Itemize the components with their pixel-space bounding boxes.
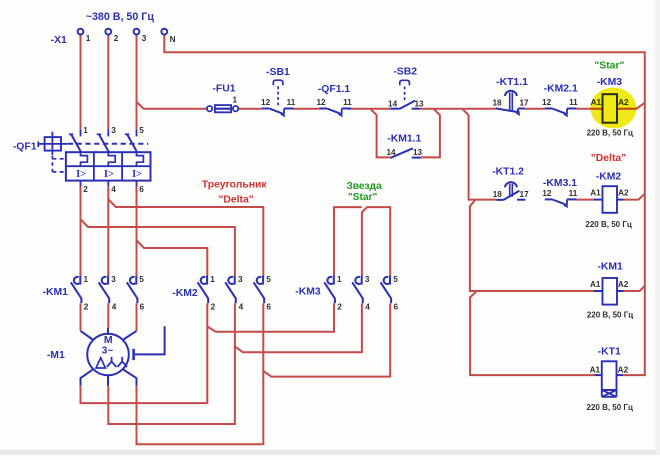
- svg-text:3: 3: [142, 34, 147, 43]
- wire FU1 to SB1: [238, 108, 262, 110]
- QF1.1 terminal numbers: [316, 98, 352, 107]
- terminal numbers X1: [86, 34, 176, 44]
- svg-text:220 В, 50 Гц: 220 В, 50 Гц: [587, 311, 633, 320]
- wire QF1.1 to SB2: [350, 108, 391, 110]
- svg-text:2: 2: [114, 34, 119, 43]
- KT1.2 terminal numbers: [493, 190, 529, 199]
- svg-text:11: 11: [569, 98, 578, 107]
- svg-text:A2: A2: [618, 189, 629, 198]
- label KT1 voltage: [587, 403, 633, 412]
- KM2 pole numbers top: [210, 275, 271, 284]
- wire QF1-2 down to KM1 pole 1: [80, 187, 82, 277]
- wire KM1 pole 4 to motor lead V1: [107, 303, 109, 328]
- svg-text:2: 2: [83, 185, 88, 194]
- label -KM2: [596, 172, 622, 183]
- svg-text:5: 5: [393, 275, 398, 284]
- KM2 coil terminals A1 A2: [590, 189, 629, 198]
- KM3 pole numbers top: [337, 275, 398, 284]
- svg-text:18: 18: [492, 99, 502, 108]
- label -KT1.2: [492, 167, 524, 178]
- KM2 pole numbers bottom: [211, 302, 272, 311]
- svg-text:13: 13: [414, 99, 424, 108]
- svg-text:"Star": "Star": [348, 192, 378, 203]
- pushbutton SB2 (NO start): [390, 80, 420, 109]
- contactor KM2 pole 3: [254, 276, 265, 304]
- svg-text:6: 6: [394, 302, 399, 311]
- svg-text:-KT1: -KT1: [598, 346, 621, 357]
- label -KM3.1: [543, 178, 577, 189]
- svg-text:18: 18: [493, 190, 503, 199]
- coil KM1 (line contactor): [594, 278, 624, 305]
- auxiliary contact QF1.1: [320, 109, 352, 118]
- FU1 terminal number 1: [233, 96, 238, 105]
- label -KM2.1: [544, 84, 578, 95]
- wire SB2 to KT1.1 along main control line: [420, 108, 496, 110]
- coil KM3: [603, 94, 618, 123]
- wire KM1.1 bypass loop right side: [421, 109, 440, 158]
- label -KM2 poles: [172, 288, 198, 299]
- yellow highlight circle over KM3 coil: [590, 88, 636, 129]
- wire left control rail middle section to rung 3: [470, 200, 594, 291]
- auxiliary contact KM3.1 (NC interlock): [545, 199, 577, 208]
- coil KM2 (delta contactor): [594, 186, 624, 213]
- label -KM3: [597, 77, 623, 88]
- wire delta branch QF1-6 to KM2 pole 1: [137, 240, 208, 276]
- svg-text:6: 6: [139, 185, 144, 194]
- KM2.1 terminal numbers: [542, 98, 578, 107]
- label -QF1.1: [318, 84, 351, 95]
- auxiliary contact KM1.1 (NO holding): [390, 148, 420, 158]
- svg-text:-SB2: -SB2: [393, 66, 417, 77]
- svg-text:13: 13: [413, 148, 423, 157]
- svg-text:-KM1.1: -KM1.1: [387, 133, 421, 144]
- wire left control rail upper section to rung 2: [462, 109, 496, 200]
- svg-text:5: 5: [139, 275, 144, 284]
- wire KM2 coil A2 to right rail: [624, 194, 645, 200]
- wire phase L3 vertical X1-3 to QF1 pole 5: [136, 35, 138, 129]
- svg-text:14: 14: [386, 148, 396, 157]
- label -KM1 poles: [42, 287, 68, 298]
- svg-text:"Star": "Star": [594, 60, 624, 71]
- wire delta branch QF1-4 to KM2 pole 5: [108, 199, 263, 276]
- label -SB2: [393, 66, 417, 77]
- pushbutton SB1 (NC stop): [262, 80, 294, 117]
- label Zvezda: [346, 181, 382, 192]
- KM1.1 terminal numbers: [386, 148, 422, 157]
- fuse FU1: [207, 105, 238, 112]
- label -M1: [47, 350, 65, 361]
- svg-text:I>: I>: [76, 169, 86, 180]
- svg-text:~380 В, 50 Гц: ~380 В, 50 Гц: [86, 11, 155, 23]
- timed contact KT1.2: [496, 182, 525, 200]
- wire QF1-4 down to KM1 pole 3: [107, 187, 109, 277]
- wire delta branch QF1-2 to KM2 pole 3: [81, 219, 235, 276]
- svg-text:4: 4: [365, 302, 370, 311]
- SB2 terminal numbers: [388, 99, 424, 108]
- circuit breaker QF1: [38, 129, 150, 186]
- svg-text:1: 1: [233, 96, 238, 105]
- contactor KM1 pole 2: [99, 276, 110, 304]
- contactor KM3 pole 1: [324, 276, 335, 304]
- svg-text:14: 14: [388, 99, 398, 108]
- svg-text:1: 1: [84, 275, 89, 284]
- KM1 coil terminals A1 A2: [590, 280, 629, 289]
- svg-text:17: 17: [520, 190, 530, 199]
- label Star quoted: [348, 192, 378, 203]
- svg-text:I>: I>: [132, 169, 142, 180]
- wire phase L1 vertical X1-1 to QF1 pole 1: [80, 35, 82, 129]
- svg-text:3~: 3~: [102, 345, 114, 356]
- svg-text:-FU1: -FU1: [212, 84, 235, 95]
- contactor KM1 pole 3: [127, 276, 138, 304]
- label -FU1: [212, 84, 235, 95]
- terminal X1-2: [105, 29, 111, 35]
- terminal X1-3: [134, 29, 140, 35]
- contactor KM2 pole 2: [225, 276, 236, 304]
- svg-text:-KM2: -KM2: [172, 288, 198, 299]
- contactor KM3 pole 3: [381, 276, 392, 304]
- svg-text:Треугольник: Треугольник: [202, 179, 268, 190]
- label -KT1: [598, 346, 621, 357]
- terminal X1-N: [161, 29, 167, 35]
- KT1 coil terminals A1 A2: [590, 365, 629, 374]
- svg-text:11: 11: [569, 189, 578, 198]
- svg-text:-KM1: -KM1: [42, 287, 68, 298]
- svg-text:A1: A1: [590, 365, 601, 374]
- KM1 pole numbers bottom: [84, 302, 145, 311]
- svg-text:-KM1: -KM1: [597, 261, 623, 272]
- wire KM3 coil A2 to right rail: [617, 103, 645, 109]
- svg-text:2: 2: [337, 302, 342, 311]
- svg-text:5: 5: [139, 126, 144, 135]
- svg-text:4: 4: [239, 302, 244, 311]
- KM1 pole numbers top: [84, 275, 145, 284]
- wire SB1 to QF1.1: [292, 108, 319, 110]
- label -KM1.1: [387, 133, 421, 144]
- wire N bus: terminal N to right-hand supply rail and KT1 rung: [164, 35, 645, 375]
- contactor KM2 pole 1: [198, 276, 209, 304]
- svg-text:1: 1: [86, 34, 91, 43]
- wire KM1 coil A2 to right rail: [624, 286, 645, 291]
- svg-text:11: 11: [287, 98, 296, 107]
- svg-text:12: 12: [316, 98, 326, 107]
- contactor KM1 pole 1: [71, 276, 82, 304]
- label -X1: [51, 35, 67, 46]
- label -KM1 coil: [597, 261, 623, 272]
- wire net W2: motor bottom right to KM2-6 and KM3-6: [137, 303, 391, 444]
- KM3 coil terminals A1 A2: [591, 98, 629, 107]
- label KM2 voltage: [585, 220, 631, 229]
- svg-text:-KT1.1: -KT1.1: [496, 77, 528, 88]
- svg-text:M: M: [104, 334, 113, 346]
- contactor KM3 pole 2: [352, 276, 363, 304]
- QF1 terminal numbers 1 3 5: [83, 126, 144, 135]
- svg-text:Звезда: Звезда: [346, 181, 382, 192]
- KM3 pole numbers bottom: [337, 302, 398, 311]
- label KM3 voltage: [587, 129, 633, 138]
- svg-text:I>: I>: [104, 169, 114, 180]
- svg-text:1: 1: [337, 275, 342, 284]
- wire net V2: motor bottom middle to KM2-4 and KM3-4: [108, 303, 362, 424]
- svg-text:A2: A2: [618, 280, 629, 289]
- svg-text:-QF1.1: -QF1.1: [318, 84, 351, 95]
- terminal X1-1: [78, 29, 84, 35]
- label Treugolnik: [202, 179, 268, 190]
- wire star point bus over KM3 poles: [334, 207, 390, 276]
- label -QF1: [13, 141, 37, 152]
- svg-text:6: 6: [266, 302, 271, 311]
- svg-text:A2: A2: [618, 365, 629, 374]
- svg-text:1: 1: [210, 275, 215, 284]
- wire KT1.1 to KM2.1: [525, 108, 545, 110]
- label -SB1: [266, 67, 290, 78]
- SB1 terminal numbers: [261, 98, 296, 107]
- svg-text:220 В, 50 Гц: 220 В, 50 Гц: [585, 220, 631, 229]
- svg-text:12: 12: [542, 189, 552, 198]
- wire KM3.1 to KM2 coil: [576, 199, 594, 201]
- svg-text:11: 11: [343, 98, 352, 107]
- wire left control rail lower section to rung 4: [470, 292, 594, 375]
- svg-text:"Delta": "Delta": [591, 153, 626, 164]
- svg-text:2: 2: [211, 302, 216, 311]
- QF1 terminal numbers 2 4 6: [83, 185, 144, 194]
- svg-text:17: 17: [519, 99, 529, 108]
- svg-text:220 В, 50 Гц: 220 В, 50 Гц: [587, 129, 633, 138]
- svg-text:3: 3: [238, 275, 243, 284]
- svg-text:3: 3: [111, 126, 116, 135]
- label Delta green-quoted red: [591, 153, 626, 164]
- svg-text:12: 12: [542, 98, 552, 107]
- svg-text:-KM3: -KM3: [597, 77, 623, 88]
- label Star green: [594, 60, 624, 71]
- svg-text:-M1: -M1: [47, 350, 65, 361]
- wire KM1 pole 2 to motor lead U1: [80, 303, 82, 330]
- label -KT1.1: [496, 77, 528, 88]
- svg-text:-X1: -X1: [51, 35, 67, 46]
- label supply voltage: [86, 11, 155, 23]
- border shading bottom: [0, 450, 660, 456]
- wire KM1 pole 6 to motor lead W1: [136, 303, 138, 330]
- svg-text:1: 1: [83, 126, 88, 135]
- wire control tap from phase L3 to fuse FU1: [137, 102, 208, 109]
- svg-text:-QF1: -QF1: [13, 141, 37, 152]
- svg-text:-KM3: -KM3: [295, 287, 321, 298]
- svg-text:6: 6: [140, 302, 145, 311]
- svg-text:"Delta": "Delta": [218, 194, 253, 205]
- svg-text:N: N: [170, 35, 176, 44]
- svg-text:-KM2: -KM2: [596, 172, 622, 183]
- svg-text:4: 4: [112, 302, 117, 311]
- svg-text:-KM3.1: -KM3.1: [543, 178, 577, 189]
- wire net U2: motor bottom left to KM2-2 and KM3-2: [81, 303, 335, 403]
- KM3.1 terminal numbers: [542, 189, 577, 198]
- svg-text:A1: A1: [590, 189, 601, 198]
- svg-text:3: 3: [111, 275, 116, 284]
- wire KM1.1 bypass loop left side: [370, 109, 390, 158]
- svg-text:-KT1.2: -KT1.2: [492, 167, 524, 178]
- svg-text:5: 5: [266, 275, 271, 284]
- wire phase L2 vertical X1-2 to QF1 pole 3: [107, 35, 109, 129]
- svg-text:12: 12: [261, 98, 271, 107]
- svg-text:-SB1: -SB1: [266, 67, 290, 78]
- svg-text:-KM2.1: -KM2.1: [544, 84, 578, 95]
- label Delta quoted: [218, 194, 253, 205]
- KT1.1 terminal numbers: [492, 99, 529, 108]
- svg-text:4: 4: [111, 185, 116, 194]
- wire KM2.1 to KM3 coil A1: [576, 108, 602, 110]
- border shading right: [655, 0, 660, 455]
- timed contact KT1.1: [496, 91, 525, 116]
- svg-text:3: 3: [365, 275, 370, 284]
- coil KT1 (timer): [595, 361, 624, 397]
- auxiliary contact KM2.1 (NC interlock): [545, 109, 577, 118]
- label KM1 voltage: [587, 311, 633, 320]
- svg-text:2: 2: [84, 302, 89, 311]
- motor M1 (3-phase): [81, 326, 165, 386]
- svg-text:A1: A1: [590, 280, 601, 289]
- svg-text:220 В, 50 Гц: 220 В, 50 Гц: [587, 403, 633, 412]
- label -KM3 poles: [295, 287, 321, 298]
- wire QF1-6 down to KM1 pole 5: [136, 187, 138, 277]
